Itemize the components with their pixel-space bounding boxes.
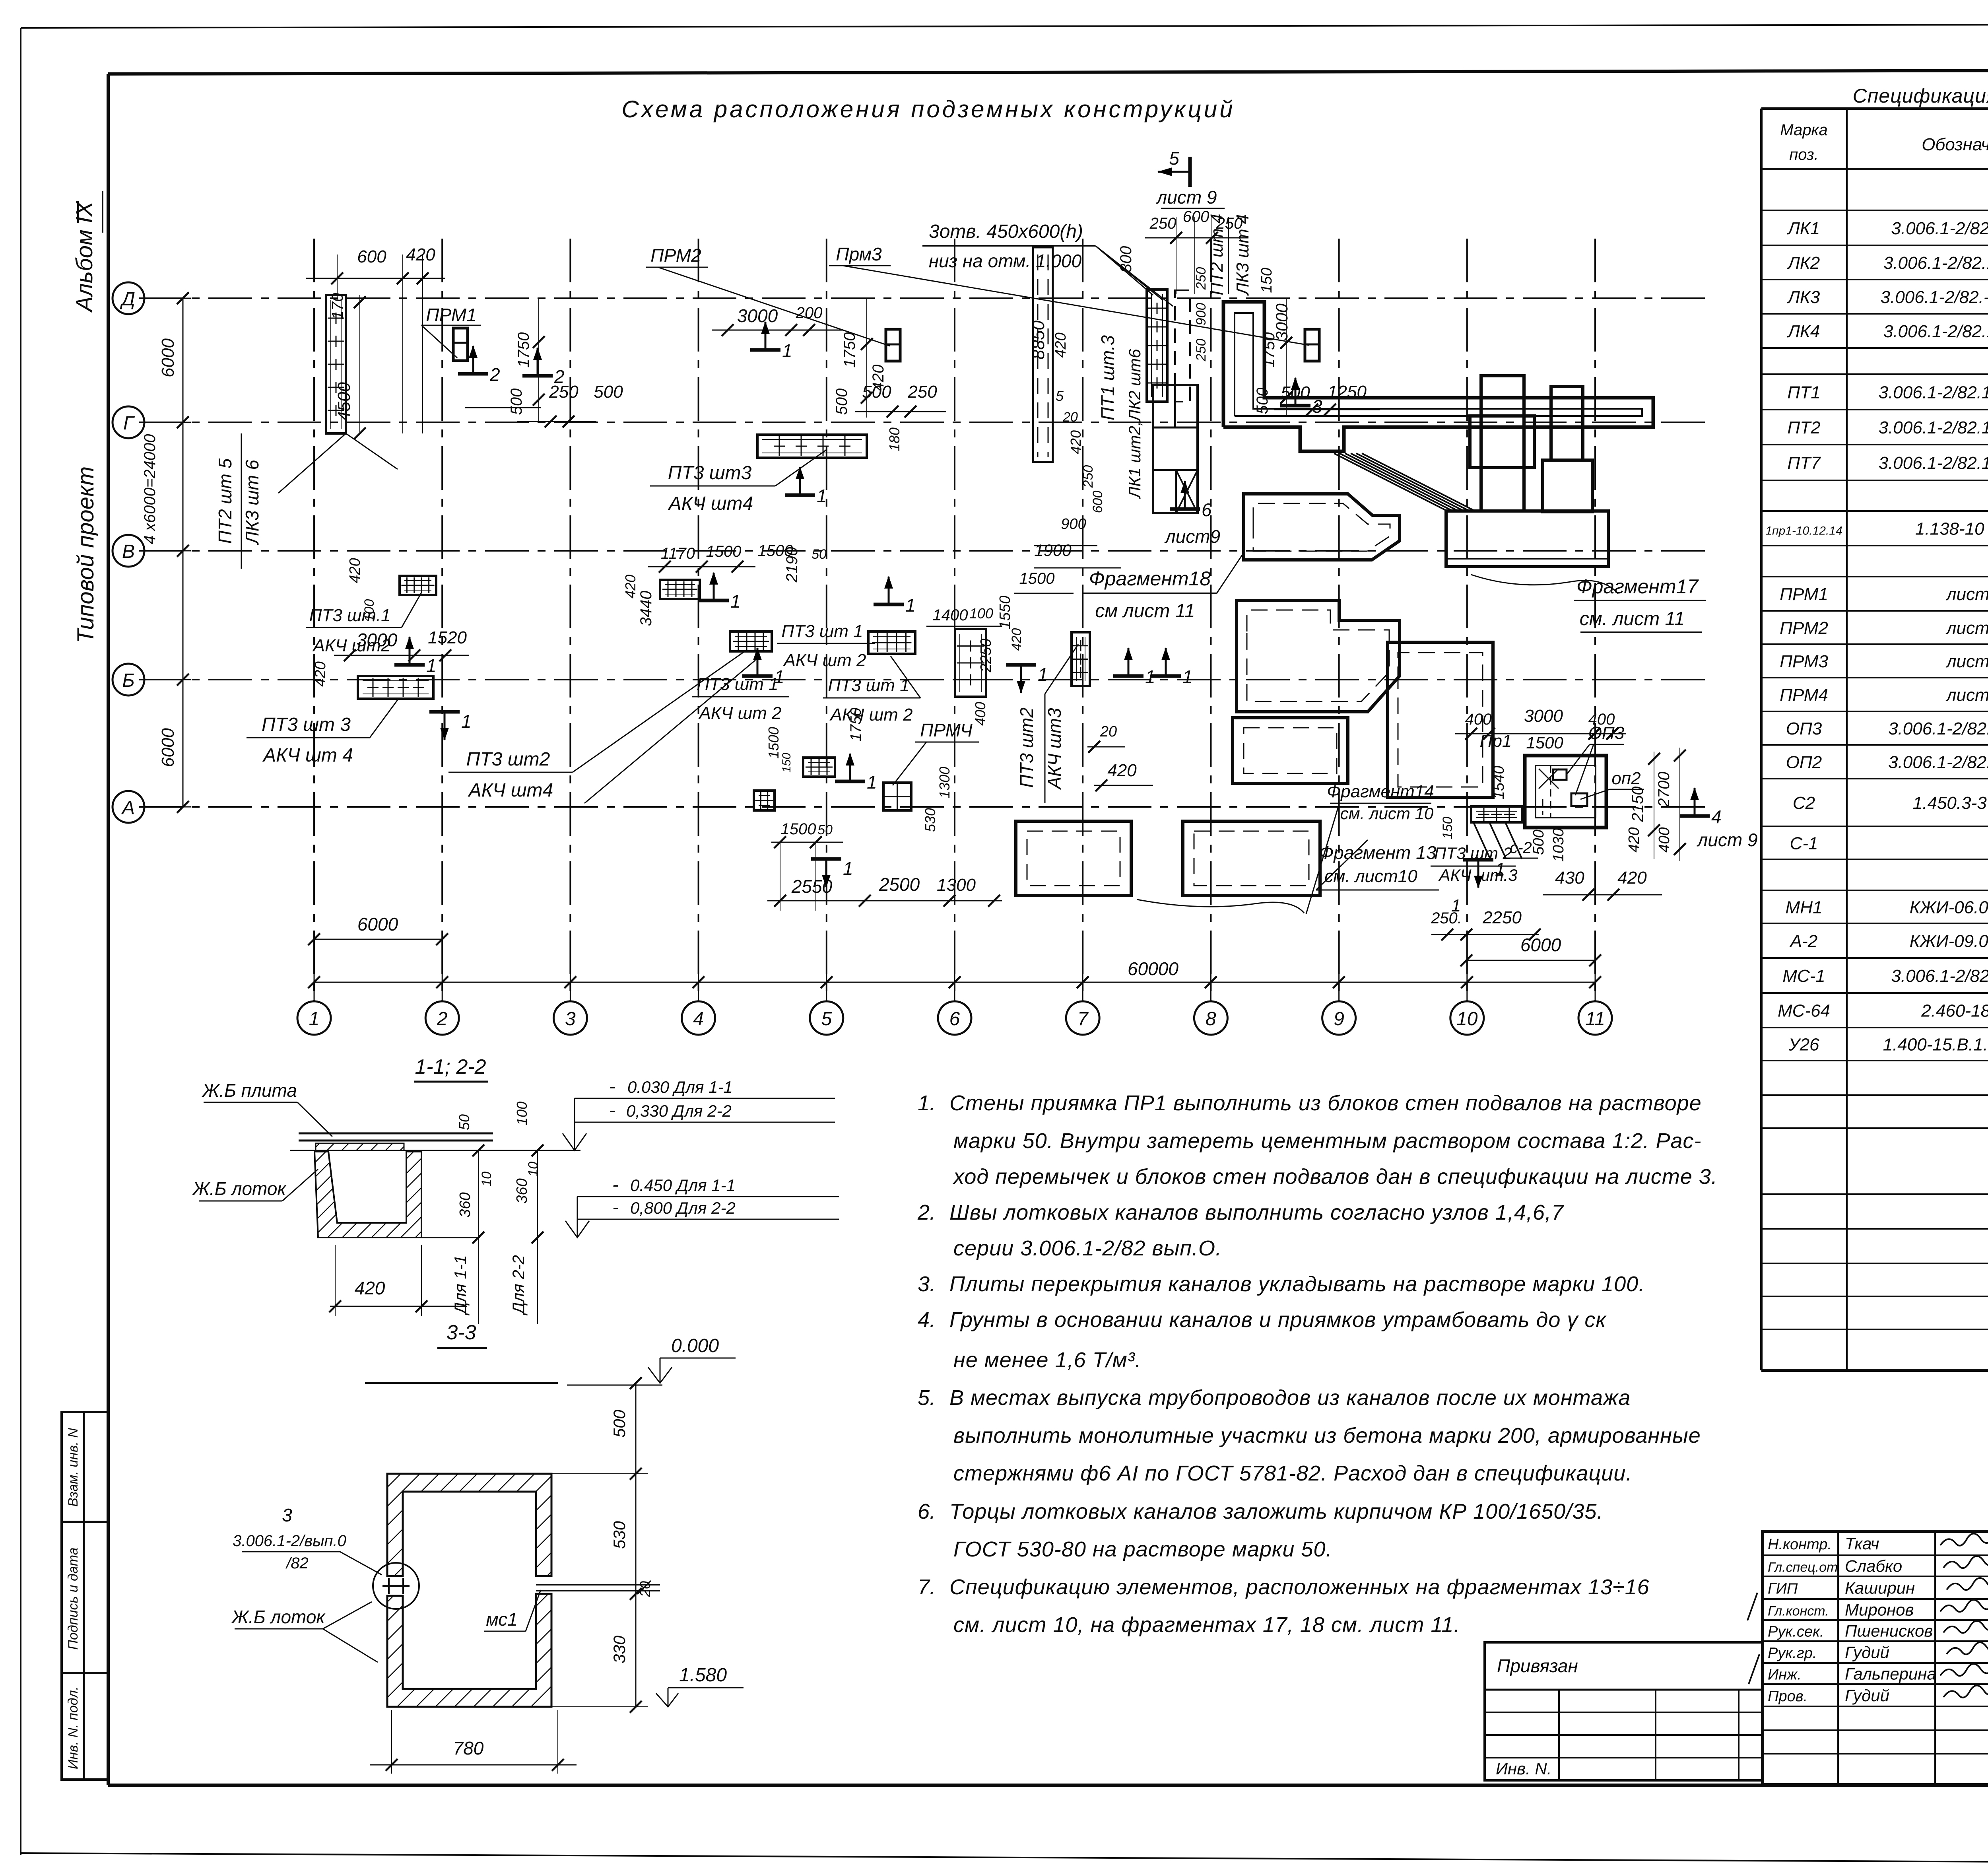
- svg-text:420: 420: [870, 365, 887, 391]
- svg-text:3000: 3000: [1524, 706, 1563, 726]
- svg-text:ПРМ1: ПРМ1: [426, 305, 476, 325]
- leader lines strip LK3: [278, 433, 398, 493]
- label PRMCH + leader: [893, 720, 979, 785]
- svg-text:Каширин: Каширин: [1845, 1579, 1915, 1597]
- level marks right: [563, 1076, 835, 1150]
- svg-text:360: 360: [514, 1178, 530, 1203]
- svg-text:3.006.1-2/82.1-2-1.0-025: 3.006.1-2/82.1-2-1.0-025: [1879, 383, 1988, 402]
- label PT3 sht.1 / AKCH sht2: [306, 593, 421, 655]
- svg-text:Ж.Б лоток: Ж.Б лоток: [192, 1178, 287, 1199]
- svg-text:4500: 4500: [334, 382, 354, 421]
- svg-text:Плиты перекрытия каналов укл: Плиты перекрытия каналов укладывать на р…: [949, 1272, 1645, 1296]
- svg-text:-: -: [612, 1174, 619, 1195]
- svg-text:5: 5: [1056, 388, 1064, 404]
- horizontal strip PT3x3 below Г axis4: [757, 435, 867, 458]
- svg-text:60000: 60000: [1128, 958, 1178, 979]
- svg-text:2500: 2500: [879, 874, 920, 895]
- svg-text:Схема расположения подземных: Схема расположения подземных конструкций: [621, 96, 1235, 122]
- svg-text:ОП2: ОП2: [1786, 753, 1822, 772]
- bottom dims 430 420 500 1030 1540 150: [1440, 766, 1662, 901]
- svg-text:420: 420: [355, 1278, 385, 1298]
- svg-text:1500: 1500: [706, 543, 742, 560]
- svg-text:3: 3: [565, 1008, 576, 1030]
- svg-text:3.006.1-2/82.1-2-1.0-007: 3.006.1-2/82.1-2-1.0-007: [1879, 418, 1988, 437]
- bottom overall dimension line 60000: [308, 958, 1601, 988]
- svg-text:1: 1: [1182, 666, 1193, 687]
- dims around PRM3: [1254, 298, 1380, 416]
- svg-text:лист9: лист9: [1164, 526, 1220, 547]
- svg-text:2.: 2.: [917, 1201, 936, 1224]
- small dims 5 20 420 180 near mid: [1034, 388, 1121, 568]
- rotated dims 800 8850: [1029, 246, 1135, 359]
- svg-text:АКЧ шт3: АКЧ шт3: [1044, 708, 1065, 790]
- label 3 / 3.006.1-2 вып.0: [233, 1505, 382, 1575]
- svg-text:3-3: 3-3: [446, 1321, 476, 1344]
- svg-text:Гл.конст.: Гл.конст.: [1768, 1604, 1829, 1619]
- svg-text:6000: 6000: [357, 914, 398, 935]
- svg-text:В: В: [122, 541, 135, 562]
- svg-text:1900: 1900: [1034, 541, 1072, 560]
- svg-text:Фрагмент17: Фрагмент17: [1576, 575, 1699, 598]
- tower 2: [1543, 387, 1592, 512]
- table header text: [1780, 121, 1988, 163]
- svg-text:400: 400: [972, 702, 988, 726]
- svg-text:3440: 3440: [637, 591, 655, 626]
- tall building F right: [1388, 642, 1493, 797]
- svg-text:мс1: мс1: [486, 1609, 518, 1630]
- section flag 6 лист9: [1164, 480, 1220, 547]
- notes block: [917, 1091, 1718, 1637]
- svg-text:ПТ3 шт 3: ПТ3 шт 3: [262, 714, 351, 735]
- strip PT3 sht1 near axis 2 row В: [400, 576, 436, 595]
- svg-text:2: 2: [437, 1008, 448, 1030]
- svg-text:1750: 1750: [841, 332, 858, 368]
- svg-text:1: 1: [1038, 664, 1048, 685]
- strip PT3 sht1 above (axes 5) with 1400/100 dims: [955, 629, 986, 697]
- building: long slab with left wing (double line): [1223, 302, 1653, 451]
- svg-text:3.: 3.: [918, 1272, 936, 1296]
- svg-text:Гл.спец.от: Гл.спец.от: [1768, 1560, 1838, 1575]
- svg-text:20: 20: [1100, 723, 1117, 740]
- svg-text:6000: 6000: [1520, 935, 1561, 955]
- svg-text:250: 250: [1149, 215, 1176, 232]
- svg-text:500: 500: [833, 389, 850, 415]
- svg-text:530: 530: [922, 808, 938, 832]
- dashed rect C (fragment 13): [1233, 718, 1348, 783]
- pit PRM2 rectangle: [886, 329, 900, 361]
- label ЖБ лоток (plan): [231, 1602, 378, 1662]
- svg-text:420: 420: [1052, 332, 1069, 358]
- svg-text:АКЧ шт 2: АКЧ шт 2: [782, 651, 866, 670]
- svg-text:780: 780: [453, 1738, 484, 1758]
- svg-text:Торцы лотковых каналов заложи: Торцы лотковых каналов заложить кирпичом…: [949, 1500, 1603, 1523]
- svg-text:420: 420: [347, 558, 363, 583]
- svg-text:1-1; 2-2: 1-1; 2-2: [415, 1055, 486, 1078]
- level 1.580: [656, 1665, 744, 1707]
- svg-text:5: 5: [1169, 148, 1179, 169]
- level 0.000: [648, 1335, 736, 1383]
- svg-text:0.000: 0.000: [671, 1335, 719, 1356]
- svg-text:50: 50: [812, 547, 827, 562]
- svg-text:250: 250: [1194, 267, 1209, 290]
- svg-text:600: 600: [1090, 491, 1105, 513]
- section: trough (lоток): [315, 1152, 480, 1238]
- svg-text:Фрагмент14: Фрагмент14: [1327, 782, 1434, 801]
- svg-text:ГОСТ 530-80 на растворе марки: ГОСТ 530-80 на растворе марки 50.: [953, 1537, 1332, 1561]
- svg-text:500: 500: [1530, 830, 1547, 855]
- svg-text:50: 50: [817, 822, 833, 837]
- label PRM3 + leader: [829, 244, 1309, 345]
- svg-text:1: 1: [1451, 896, 1461, 915]
- svg-text:900: 900: [1194, 303, 1209, 326]
- svg-text:50: 50: [456, 1114, 472, 1130]
- svg-text:-: -: [609, 1076, 615, 1097]
- svg-text:АКЧ шт 2: АКЧ шт 2: [829, 705, 912, 725]
- svg-text:1300: 1300: [936, 767, 953, 799]
- svg-text:ПТ3 шт 1: ПТ3 шт 1: [828, 676, 909, 695]
- right dim chains 2700 2150 420 400: [1626, 748, 1686, 861]
- svg-text:250: 250: [1194, 339, 1209, 362]
- svg-text:А-2: А-2: [1789, 932, 1817, 951]
- svg-text:лист 9: лист 9: [1155, 187, 1217, 208]
- svg-text:1500: 1500: [781, 820, 816, 838]
- svg-text:4.: 4.: [918, 1308, 936, 1332]
- label PT3 sht3 / AKCH sht4 lower-left: [247, 700, 398, 766]
- svg-text:1: 1: [730, 591, 741, 612]
- svg-text:ПТ2 шт 4: ПТ2 шт 4: [1207, 214, 1227, 295]
- svg-text:см. лист 11: см. лист 11: [1580, 608, 1685, 630]
- svg-text:1: 1: [309, 1008, 320, 1030]
- svg-text:АКЧ шт 4: АКЧ шт 4: [262, 745, 353, 766]
- label мс1: [484, 1590, 541, 1631]
- svg-text:1: 1: [461, 711, 472, 732]
- title block: [1763, 1531, 1988, 1785]
- svg-text:180: 180: [886, 427, 903, 451]
- labels Пр1 1500 ОП3: [1480, 723, 1625, 795]
- vertical strip on axis 7 (PT3 sht2/AKCH sht3): [1072, 632, 1090, 686]
- svg-text:3.006.1-2/82.1-1-04.0-2: 3.006.1-2/82.1-1-04.0-2: [1883, 253, 1988, 273]
- svg-text:1500: 1500: [1526, 733, 1563, 752]
- svg-text:Г: Г: [123, 413, 135, 434]
- dim 600 420 above strip: [306, 245, 445, 433]
- label Фрагмент 18: [1083, 553, 1244, 622]
- svg-text:6: 6: [1202, 499, 1212, 520]
- svg-text:МС-1: МС-1: [1782, 966, 1825, 986]
- svg-text:3.006.1-2/82.1-2-6.0-2: 3.006.1-2/82.1-2-6.0-2: [1888, 719, 1988, 738]
- svg-text:см. лист 10, на фрагментах 17,: см. лист 10, на фрагментах 17, 18 см. ли…: [953, 1613, 1460, 1637]
- svg-text:10: 10: [1456, 1008, 1478, 1030]
- label ЖБ плита: [202, 1080, 332, 1137]
- svg-text:3000: 3000: [1272, 303, 1291, 341]
- svg-text:3.006.1-2/82.1-3-19,0: 3.006.1-2/82.1-3-19,0: [1891, 966, 1988, 986]
- svg-text:Для 1-1: Для 1-1: [451, 1255, 470, 1315]
- svg-text:Пшенисков: Пшенисков: [1845, 1622, 1933, 1640]
- svg-text:Д: Д: [120, 289, 135, 310]
- svg-text:3000: 3000: [737, 305, 778, 326]
- svg-text:Для 2-2: Для 2-2: [509, 1255, 528, 1315]
- svg-text:3000: 3000: [357, 630, 398, 650]
- svg-text:КЖИ-06.00 Ал.X: КЖИ-06.00 Ал.X: [1910, 898, 1988, 917]
- svg-text:выполнить монолитные участки: выполнить монолитные участки из бетона м…: [953, 1424, 1701, 1447]
- svg-text:Пр1: Пр1: [1480, 731, 1512, 751]
- svg-text:420: 420: [312, 661, 329, 686]
- dims 400 3000 400 above Pr1: [1455, 706, 1626, 740]
- svg-text:4: 4: [693, 1008, 704, 1030]
- svg-text:4: 4: [1711, 806, 1722, 827]
- bottom-right 250 2250 dimension: [1431, 908, 1541, 940]
- svg-text:600: 600: [357, 247, 386, 266]
- svg-text:20: 20: [637, 1581, 653, 1597]
- svg-text:-: -: [612, 1197, 619, 1218]
- svg-text:20: 20: [1062, 410, 1078, 425]
- svg-text:200: 200: [796, 304, 823, 322]
- section flags 2-2: [458, 345, 500, 385]
- svg-text:330: 330: [610, 1635, 629, 1663]
- svg-text:4 x6000=24000: 4 x6000=24000: [141, 434, 159, 544]
- svg-text:500: 500: [508, 389, 525, 415]
- svg-text:Инв. N.: Инв. N.: [1496, 1759, 1551, 1778]
- svg-text:-: -: [609, 1100, 615, 1121]
- svg-text:1540: 1540: [1491, 766, 1507, 800]
- svg-text:420: 420: [406, 245, 435, 264]
- svg-text:лист 9: лист 9: [1945, 686, 1988, 705]
- tower 1: [1470, 376, 1534, 511]
- svg-text:1.450.3-3 вып.1: 1.450.3-3 вып.1: [1913, 793, 1988, 813]
- stepped dashed building A (Фрагмент18 upper): [1244, 494, 1400, 560]
- label оп2 + leader: [1580, 769, 1644, 799]
- svg-text:5: 5: [821, 1008, 832, 1030]
- svg-text:Спецификацию элементов, распол: Спецификацию элементов, расположенных на…: [949, 1575, 1650, 1599]
- svg-text:400: 400: [1656, 827, 1673, 852]
- svg-text:0.450 Для 1-1: 0.450 Для 1-1: [630, 1176, 736, 1195]
- svg-text:поз.: поз.: [1789, 146, 1819, 163]
- svg-text:6000: 6000: [158, 728, 178, 767]
- fragment 17 label: [1471, 575, 1706, 632]
- svg-text:С-1: С-1: [1790, 834, 1818, 853]
- svg-text:150: 150: [1258, 268, 1275, 293]
- pit Pr1 big square: [1525, 756, 1606, 828]
- svg-text:1750: 1750: [848, 708, 864, 742]
- section: top slab: [290, 1133, 580, 1150]
- svg-text:1.138-10 вып.1: 1.138-10 вып.1: [1915, 519, 1988, 539]
- svg-text:не менее 1,6 Т/м³.: не менее 1,6 Т/м³.: [953, 1348, 1142, 1372]
- svg-text:Альбом IX: Альбом IX: [72, 200, 97, 313]
- long strip on axis Б left: [358, 676, 433, 699]
- section flag 5 / лист 9 top: [1155, 148, 1225, 208]
- svg-text:ПТ3 шт3: ПТ3 шт3: [668, 462, 752, 484]
- svg-text:ОП3: ОП3: [1786, 719, 1822, 738]
- svg-text:3.006.1-2/82.1-2-1.0-003: 3.006.1-2/82.1-2-1.0-003: [1879, 453, 1988, 473]
- svg-text:250: 250: [1081, 465, 1096, 488]
- svg-text:5.: 5.: [918, 1386, 936, 1410]
- svg-text:420: 420: [1617, 868, 1647, 888]
- svg-text:2250: 2250: [978, 639, 994, 673]
- left vertical dimension chain: [141, 292, 189, 813]
- svg-text:10: 10: [479, 1172, 494, 1187]
- svg-text:низ на отм. 1.000: низ на отм. 1.000: [929, 251, 1082, 271]
- svg-text:1500: 1500: [1019, 570, 1055, 587]
- stepped dashed building B (middle): [1237, 600, 1400, 712]
- dashed rect D: [1016, 821, 1131, 896]
- svg-text:430: 430: [1555, 868, 1584, 888]
- svg-text:420: 420: [1107, 761, 1137, 780]
- svg-text:1520: 1520: [428, 628, 467, 647]
- svg-text:1: 1: [1495, 859, 1505, 880]
- svg-text:1: 1: [867, 772, 877, 793]
- svg-text:ОП3: ОП3: [1588, 723, 1625, 743]
- project label: Типовой проект: [73, 466, 99, 643]
- svg-text:0.030 Для 1-1: 0.030 Для 1-1: [627, 1078, 733, 1096]
- svg-text:900: 900: [1061, 516, 1086, 532]
- svg-text:марки 50. Внутри затереть цеме: марки 50. Внутри затереть цементным раст…: [953, 1129, 1702, 1153]
- svg-text:ПТ3 шт.1: ПТ3 шт.1: [309, 606, 391, 625]
- bottom-right 6000 dimension: [1460, 935, 1601, 966]
- pit PRM1 rectangle: [453, 328, 468, 361]
- svg-text:ПТ1: ПТ1: [1787, 383, 1820, 402]
- svg-text:Ж.Б плита: Ж.Б плита: [202, 1080, 297, 1101]
- svg-text:Инж.: Инж.: [1768, 1667, 1802, 1683]
- svg-text:см. лист 10: см. лист 10: [1340, 804, 1434, 823]
- svg-text:100: 100: [969, 605, 993, 622]
- svg-text:лист 9: лист 9: [1945, 585, 1988, 604]
- dim 420 under trough: [329, 1245, 467, 1316]
- svg-text:150: 150: [1440, 817, 1455, 839]
- svg-text:ЛК4: ЛК4: [1787, 322, 1820, 341]
- svg-text:1550: 1550: [997, 596, 1013, 630]
- svg-text:ГИП: ГИП: [1768, 1581, 1798, 1597]
- svg-text:2150: 2150: [1629, 787, 1646, 822]
- svg-text:420: 420: [1626, 827, 1642, 852]
- dims 1750 500 250 500 around PRM1: [465, 298, 623, 427]
- table rows: [1761, 178, 1988, 210]
- album label: Альбом IX: [72, 191, 103, 313]
- dim 780: [370, 1710, 577, 1774]
- ground line: [365, 1383, 662, 1385]
- detail circle on left wall: [373, 1563, 419, 1609]
- right dim chain 500 530 330: [551, 1377, 653, 1713]
- svg-text:1300: 1300: [937, 875, 976, 895]
- rotated label ПТ2шт4 ЛК3шт4 right: [1207, 214, 1252, 296]
- svg-text:1.400-15.В.1.005-18-40: 1.400-15.В.1.005-18-40: [1883, 1035, 1988, 1055]
- svg-text:170: 170: [329, 293, 346, 320]
- svg-text:ПРМ4: ПРМ4: [1780, 686, 1828, 705]
- svg-text:Взам. инв. N: Взам. инв. N: [66, 1428, 81, 1507]
- svg-text:2700: 2700: [1655, 772, 1673, 808]
- svg-text:Пров.: Пров.: [1768, 1688, 1807, 1705]
- slashes near title block: [1747, 1593, 1759, 1684]
- svg-text:МН1: МН1: [1786, 898, 1823, 917]
- svg-text:Н.контр.: Н.контр.: [1768, 1536, 1832, 1553]
- towers base slab: [1446, 511, 1608, 567]
- svg-text:ПТ3 шт 1: ПТ3 шт 1: [781, 622, 863, 641]
- svg-text:1400: 1400: [933, 606, 968, 624]
- svg-text:Ж.Б лоток: Ж.Б лоток: [231, 1607, 326, 1627]
- svg-text:2250: 2250: [1482, 908, 1522, 927]
- svg-text:ход перемычек и блоков стен по: ход перемычек и блоков стен подвалов дан…: [952, 1165, 1718, 1189]
- section 1-1;2-2 label: [414, 1055, 488, 1082]
- svg-text:Швы лотковых каналов выполнить: Швы лотковых каналов выполнить согласно …: [949, 1201, 1564, 1224]
- svg-text:с-2: с-2: [1510, 839, 1532, 857]
- pit plan: square ring walls hatched: [387, 1474, 551, 1707]
- svg-text:Ткач: Ткач: [1845, 1534, 1879, 1553]
- small strip pair near axis 4 row А: [803, 758, 835, 777]
- svg-text:Гудий: Гудий: [1845, 1686, 1889, 1705]
- dim 170 / 4500 rotated left of strip: [329, 293, 366, 439]
- svg-text:АКЧ шт 2: АКЧ шт 2: [698, 703, 781, 723]
- svg-text:лист 9: лист 9: [1945, 618, 1988, 638]
- svg-text:Гудий: Гудий: [1845, 1643, 1889, 1662]
- hatched tall strip PT1: [1147, 289, 1167, 402]
- svg-text:ПРМ3: ПРМ3: [1780, 652, 1828, 671]
- svg-text:3.006.1-2/82.1-2-6.0-1: 3.006.1-2/82.1-2-6.0-1: [1888, 753, 1988, 772]
- rotated labels ПТ1 шт.3 / ЛК1шт2,ЛК2шт6: [1097, 335, 1144, 499]
- svg-text:1.580: 1.580: [679, 1665, 727, 1686]
- svg-text:Обозначение: Обозначение: [1922, 135, 1988, 154]
- svg-text:8850: 8850: [1029, 321, 1048, 359]
- svg-text:см лист 11: см лист 11: [1095, 600, 1195, 622]
- svg-text:0,800 Для 2-2: 0,800 Для 2-2: [630, 1199, 736, 1217]
- bottom-left 6000 dimension: [308, 914, 448, 945]
- svg-text:7: 7: [1077, 1008, 1089, 1030]
- svg-text:/82: /82: [285, 1554, 309, 1572]
- svg-text:1750: 1750: [515, 332, 532, 368]
- svg-text:Спецификация ксхеме расположен: Спецификация ксхеме расположения подземн…: [1853, 85, 1988, 107]
- svg-text:800: 800: [1117, 246, 1135, 273]
- axis circles letters: [113, 282, 191, 314]
- svg-text:150: 150: [780, 753, 793, 773]
- svg-text:ПТ2: ПТ2: [1787, 418, 1820, 437]
- svg-text:1: 1: [426, 655, 437, 676]
- left stamp boxes (Взам.инв.N / Подпись и дата / Инв.N подл.): [62, 1412, 108, 1780]
- svg-text:1030: 1030: [1550, 828, 1567, 862]
- label ЖБ лоток: [192, 1169, 318, 1201]
- svg-text:В местах выпуска трубопроводов: В местах выпуска трубопроводов из канало…: [949, 1386, 1631, 1410]
- labels ПТ3 шт1 АКЧ шт2 top: [777, 622, 875, 670]
- svg-text:11: 11: [1585, 1008, 1605, 1030]
- svg-text:8: 8: [1206, 1008, 1216, 1030]
- flag 3 on right: [1280, 377, 1322, 417]
- svg-text:6000: 6000: [158, 338, 178, 377]
- svg-text:2.460-18.3 27: 2.460-18.3 27: [1921, 1001, 1988, 1021]
- pit PRM3 rectangle: [1305, 329, 1319, 361]
- svg-text:ПТ2 шт 5: ПТ2 шт 5: [215, 458, 235, 544]
- svg-text:400: 400: [1465, 711, 1492, 728]
- svg-text:лист 9: лист 9: [1696, 830, 1757, 850]
- svg-text:АКЧ шт4: АКЧ шт4: [468, 780, 553, 801]
- svg-text:ЛК1 шт2,ЛК2 шт6: ЛК1 шт2,ЛК2 шт6: [1125, 349, 1144, 499]
- svg-text:ЛК1: ЛК1: [1787, 219, 1820, 238]
- svg-text:6: 6: [949, 1008, 960, 1030]
- section flag 4 + лист 9: [1679, 787, 1758, 850]
- tall dashed channel near axis 6: [1033, 247, 1053, 462]
- svg-text:9: 9: [1334, 1008, 1344, 1030]
- svg-text:3.006.1-2/82.1-1-04.0: 3.006.1-2/82.1-1-04.0: [1891, 219, 1988, 238]
- svg-text:Марка: Марка: [1780, 121, 1827, 139]
- svg-text:ПРМ1: ПРМ1: [1780, 585, 1828, 604]
- label PRM1 with leader: [421, 305, 481, 358]
- svg-text:Рук.гр.: Рук.гр.: [1768, 1645, 1817, 1662]
- svg-text:У26: У26: [1788, 1035, 1819, 1055]
- svg-text:500: 500: [594, 382, 623, 402]
- svg-text:ЛК3 шт 4: ЛК3 шт 4: [1233, 214, 1252, 296]
- svg-text:420: 420: [1068, 430, 1084, 454]
- svg-text:ПРМ2: ПРМ2: [650, 245, 701, 266]
- diagonal duct lines: [1334, 453, 1475, 511]
- strip near axis 10 hatched + diagonals: [1471, 806, 1522, 822]
- svg-text:КЖИ-09.00 Ал.X: КЖИ-09.00 Ал.X: [1910, 932, 1988, 951]
- svg-text:стержнями ф6 АI по ГОСТ 5781-8: стержнями ф6 АI по ГОСТ 5781-82. Расход …: [953, 1461, 1632, 1485]
- label PT2 sht5 / LK3 sht6 (rotated): [215, 433, 262, 569]
